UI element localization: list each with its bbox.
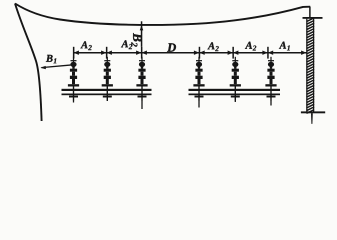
insulator 6 (265, 57, 276, 101)
left anchor drop curve (15, 4, 42, 122)
insulator 3 (136, 57, 147, 101)
B2 up arrowhead (140, 25, 144, 30)
right beam (189, 89, 281, 91)
sag curve (wire span) (15, 4, 310, 25)
wall drop link (309, 7, 311, 18)
insulator 5 (230, 57, 241, 101)
label B1 (46, 55, 56, 63)
label D (167, 43, 176, 51)
B1 arrowhead (40, 66, 46, 69)
label A2 fourth (245, 42, 256, 51)
insulator 4 (193, 57, 204, 101)
label A2 third (207, 42, 218, 51)
dimension chain line (74, 52, 307, 54)
wall hatched band left edge (306, 19, 307, 112)
wall bottom bar (301, 111, 325, 113)
dimension ticks (73, 47, 269, 59)
wall top bar (303, 17, 323, 19)
label A2 second (121, 40, 132, 49)
label B2 rotated (131, 33, 141, 47)
wall hatched band right edge (313, 19, 314, 112)
dimension arrowheads (74, 51, 79, 55)
insulator 1 (68, 57, 79, 101)
left beam (62, 89, 152, 91)
label A1 (279, 42, 290, 51)
wall bottom stem (311, 113, 313, 124)
insulator 2 (102, 57, 113, 101)
label A2 first (80, 41, 91, 50)
vertical dimension B2 line (141, 21, 143, 47)
wall hatching (307, 18, 315, 114)
B1 leader line (41, 65, 73, 68)
